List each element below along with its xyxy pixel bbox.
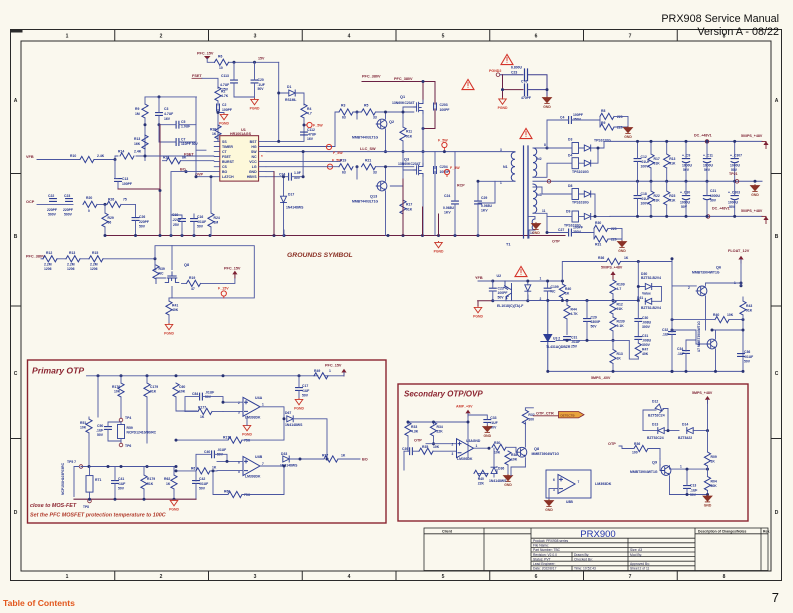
svg-text:SS: SS: [222, 140, 227, 144]
resistor R34: [430, 422, 436, 436]
svg-text:2: 2: [452, 442, 454, 446]
svg-text:C34: C34: [677, 347, 683, 351]
svg-text:D13: D13: [652, 422, 658, 426]
svg-text:RT1: RT1: [95, 478, 102, 482]
resistor R24: [208, 213, 214, 227]
resistor R40C: [715, 317, 729, 323]
transistor U7: [706, 339, 717, 349]
svg-text:1.0F: 1.0F: [294, 171, 301, 175]
svg-text:1K: 1K: [212, 132, 217, 136]
capacitor C31B: [635, 337, 642, 340]
ground GND: [532, 223, 541, 235]
svg-text:LM393DK: LM393DK: [245, 475, 261, 479]
transformer T1 primary N1: [511, 152, 515, 181]
svg-text:C109: C109: [551, 285, 559, 289]
svg-text:10: 10: [219, 66, 223, 70]
svg-text:1: 1: [66, 34, 69, 40]
svg-text:R176: R176: [112, 385, 120, 389]
svg-text:EL1018(C)(TA)-F: EL1018(C)(TA)-F: [497, 304, 523, 308]
svg-text:R21: R21: [365, 158, 371, 162]
svg-text:R239: R239: [617, 320, 625, 324]
capacitor C41: [112, 481, 119, 484]
capacitor C2: [217, 104, 220, 111]
ground GND: [483, 426, 492, 438]
svg-text:50V: 50V: [591, 325, 598, 329]
svg-text:R13: R13: [134, 137, 140, 141]
svg-text:D17: D17: [288, 192, 294, 196]
svg-text:.01UF: .01UF: [641, 197, 650, 201]
svg-text:4: 4: [348, 34, 351, 40]
svg-text:Q13: Q13: [370, 195, 377, 199]
resistor R04: [704, 477, 710, 491]
resistor R17: [400, 200, 406, 214]
svg-text:91K: 91K: [669, 162, 676, 166]
svg-text:13N60KC234T: 13N60KC234T: [398, 162, 422, 166]
diode D3: [572, 143, 579, 154]
junction dots mid rail: [636, 180, 639, 183]
capacitor C109: [544, 288, 551, 291]
svg-text:80K: 80K: [711, 484, 718, 488]
svg-text:8: 8: [723, 574, 726, 580]
wire +48V top rail: [610, 140, 762, 142]
svg-text:C23: C23: [511, 71, 517, 75]
svg-text:*: *: [261, 154, 263, 159]
svg-text:6.800U: 6.800U: [511, 66, 522, 70]
svg-text:F_5W: F_5W: [333, 151, 343, 155]
box Primary OTP: [28, 360, 387, 523]
svg-text:4.3K: 4.3K: [411, 430, 419, 434]
svg-text:100PF: 100PF: [222, 108, 232, 112]
svg-text:7: 7: [262, 462, 264, 466]
svg-text:R12: R12: [617, 303, 623, 307]
svg-text:R49: R49: [314, 369, 320, 373]
svg-text:U2: U2: [497, 274, 502, 278]
wire D36 R40: [478, 466, 497, 473]
capacitor C27: [569, 229, 572, 236]
wire VFB: [37, 156, 214, 160]
wire maroon: [118, 188, 160, 190]
svg-text:LLC_SW: LLC_SW: [360, 147, 376, 151]
transistor Q6: [696, 286, 707, 296]
svg-text:LM393DK: LM393DK: [595, 482, 612, 486]
wire top rail left: [145, 96, 197, 98]
svg-text:R4: R4: [307, 107, 311, 111]
resistor R5: [362, 109, 376, 115]
svg-text:C30: C30: [642, 316, 648, 320]
svg-text:1000U: 1000U: [730, 164, 741, 168]
resistor R3: [339, 109, 353, 115]
svg-text:C13: C13: [122, 177, 128, 181]
svg-text:+_C30: +_C30: [680, 190, 690, 194]
svg-text:91K: 91K: [150, 390, 157, 394]
svg-text:BO: BO: [362, 457, 368, 461]
svg-text:R24: R24: [214, 216, 220, 220]
svg-text:DETECTB: DETECTB: [561, 413, 575, 417]
wire HG route: [266, 112, 339, 147]
resistor R29: [102, 213, 108, 227]
svg-text:NCPD12410/80/RC: NCPD12410/80/RC: [127, 431, 157, 435]
svg-text:C31: C31: [642, 334, 648, 338]
svg-text:2: 2: [160, 34, 163, 40]
svg-text:16K: 16K: [134, 142, 141, 146]
capacitor C113: [231, 80, 238, 83]
ground PGND: [498, 98, 508, 110]
svg-text:Time: 10:52:43: Time: 10:52:43: [574, 567, 596, 571]
svg-text:PFC_15V: PFC_15V: [325, 363, 342, 367]
resistor R62: [171, 475, 177, 489]
capacitor C9: [682, 159, 689, 163]
svg-text:R16: R16: [163, 156, 169, 160]
diode D4: [572, 158, 579, 169]
svg-text:R35: R35: [422, 445, 428, 449]
svg-text:N1: N1: [503, 165, 508, 169]
wire N2 top to D3: [533, 147, 572, 149]
svg-text:D9: D9: [566, 210, 570, 214]
svg-text:0.068U: 0.068U: [443, 206, 454, 210]
resistor R13C: [664, 154, 670, 168]
resistor R41: [166, 301, 172, 315]
svg-text:1K: 1K: [624, 256, 629, 260]
svg-text:.01UF: .01UF: [641, 160, 650, 164]
wire bottom maroon rail: [74, 498, 196, 500]
capacitor C42: [193, 481, 200, 484]
svg-text:91K: 91K: [746, 309, 753, 313]
capacitor C204: [434, 167, 437, 174]
svg-text:10K: 10K: [114, 390, 121, 394]
svg-text:C33: C33: [490, 416, 496, 420]
svg-text:DC_+48V1: DC_+48V1: [712, 206, 730, 210]
wire OCP: [37, 204, 136, 217]
ground PGND: [242, 424, 252, 436]
title block table: [424, 528, 768, 571]
svg-text:100PF: 100PF: [573, 113, 583, 117]
svg-text:D: D: [14, 510, 18, 516]
svg-text:R04: R04: [711, 480, 717, 484]
svg-text:D14: D14: [682, 422, 688, 426]
svg-text:50/IPS_+48V: 50/IPS_+48V: [741, 134, 763, 138]
svg-text:Size: A3: Size: A3: [630, 548, 642, 552]
resistor R40B: [559, 284, 565, 298]
svg-text:HG: HG: [251, 145, 257, 149]
svg-text:Sheet 2 of 11: Sheet 2 of 11: [630, 567, 650, 571]
svg-text:C16: C16: [197, 215, 203, 219]
svg-text:2: 2: [160, 574, 163, 580]
svg-text:91K: 91K: [406, 207, 413, 211]
wire HBVS: [266, 152, 303, 236]
svg-text:5MPS_-60V: 5MPS_-60V: [591, 376, 611, 380]
svg-text:1000U: 1000U: [728, 201, 739, 205]
node F_5W: [326, 144, 331, 149]
svg-text:R22: R22: [654, 194, 660, 198]
svg-text:BURST: BURST: [222, 160, 235, 164]
capacitor C17: [296, 388, 303, 391]
svg-text:D36: D36: [498, 466, 504, 470]
capacitor C23: [66, 199, 73, 202]
svg-text:TP5 7: TP5 7: [67, 460, 76, 464]
svg-text:C204: C204: [440, 165, 448, 169]
svg-text:25V: 25V: [173, 223, 180, 227]
svg-text:3: 3: [254, 574, 257, 580]
svg-text:91K: 91K: [669, 199, 676, 203]
svg-text:R19: R19: [189, 276, 195, 280]
capacitor C34B: [683, 351, 690, 354]
node F_5W: [444, 169, 449, 174]
ground GND: [511, 467, 525, 476]
svg-text:2.2M: 2.2M: [90, 263, 98, 267]
svg-text:Q3: Q3: [404, 158, 409, 162]
svg-text:R20: R20: [86, 196, 92, 200]
svg-text:F_15V: F_15V: [218, 286, 229, 290]
transformer secondary N3: [533, 184, 537, 213]
svg-text:U4A: U4A: [255, 396, 263, 400]
svg-text:91K: 91K: [654, 162, 661, 166]
svg-text:C21: C21: [710, 189, 716, 193]
svg-text:1.0UF: 1.0UF: [181, 125, 190, 129]
svg-text:MMBT4403LT1G: MMBT4403LT1G: [352, 199, 378, 203]
svg-text:100: 100: [632, 450, 638, 454]
svg-text:R9: R9: [135, 107, 139, 111]
svg-text:.008U: .008U: [642, 339, 652, 343]
svg-text:51K: 51K: [147, 482, 154, 486]
svg-text:R30: R30: [595, 221, 601, 225]
svg-text:HBVS: HBVS: [247, 175, 257, 179]
svg-text:3: 3: [254, 34, 257, 40]
pin stubs right: [259, 141, 267, 176]
svg-text:R40: R40: [478, 477, 484, 481]
wire loop around Q8: [155, 246, 254, 298]
resistor R176: [118, 383, 124, 397]
svg-text:300V: 300V: [642, 325, 651, 329]
resistor R36B: [634, 445, 648, 451]
svg-text:R6: R6: [218, 55, 222, 59]
svg-text:R39: R39: [159, 267, 165, 271]
svg-text:91K: 91K: [617, 307, 624, 311]
svg-text:Approved By:: Approved By:: [630, 562, 650, 566]
svg-text:D12: D12: [652, 399, 658, 403]
capacitor C22: [50, 199, 57, 202]
svg-text:50V: 50V: [744, 359, 751, 363]
junction dots top rail: [636, 140, 639, 143]
svg-text:LM393DK: LM393DK: [457, 457, 473, 461]
svg-text:5: 5: [442, 34, 445, 40]
svg-text:C17: C17: [302, 384, 308, 388]
svg-text:MMBT3904WT1G: MMBT3904WT1G: [630, 470, 658, 474]
svg-text:1K: 1K: [341, 453, 346, 457]
svg-text:R178: R178: [223, 435, 231, 439]
resistor R16: [167, 158, 181, 164]
svg-text:5: 5: [442, 574, 445, 580]
resistor R109: [610, 280, 616, 294]
resistor R09: [704, 452, 710, 466]
diode D17: [281, 196, 287, 202]
svg-text:33: 33: [373, 170, 377, 174]
svg-text:R61: R61: [191, 466, 197, 470]
diode D33: [283, 456, 289, 462]
svg-text:R36: R36: [598, 256, 604, 260]
node F_5W: [442, 142, 447, 147]
svg-text:MMBT4403LT1G: MMBT4403LT1G: [352, 136, 378, 140]
svg-text:1: 1: [476, 444, 478, 448]
svg-text:50V: 50V: [681, 205, 688, 209]
svg-text:4.7K: 4.7K: [571, 312, 579, 316]
wire R36 to Q6: [562, 262, 672, 281]
svg-text:R10: R10: [70, 154, 76, 158]
svg-text:GROUNDS SYMBOL: GROUNDS SYMBOL: [287, 252, 353, 259]
svg-text:R34: R34: [437, 425, 443, 429]
resistor R49: [314, 373, 328, 379]
svg-text:OTP_CTR: OTP_CTR: [536, 411, 554, 415]
svg-text:D30: D30: [641, 272, 647, 276]
resistor R13D: [610, 350, 616, 364]
resistor R51: [86, 419, 92, 433]
transformer aux winding: [532, 219, 535, 230]
svg-text:R17: R17: [406, 203, 412, 207]
svg-text:TPS1010G: TPS1010G: [572, 201, 589, 205]
svg-text:100PF: 100PF: [122, 182, 132, 186]
svg-text:1N4148WS: 1N4148WS: [286, 205, 304, 209]
svg-text:50V: 50V: [498, 296, 505, 300]
svg-text:C76: C76: [521, 80, 527, 84]
resistor R9B: [600, 124, 614, 130]
svg-text:R8: R8: [601, 109, 605, 113]
svg-text:R31: R31: [595, 243, 601, 247]
warning triangle: [515, 266, 527, 276]
svg-text:16V: 16V: [164, 117, 171, 121]
svg-text:Q8: Q8: [184, 263, 189, 267]
svg-text:R5: R5: [364, 104, 368, 108]
svg-text:MMBT3904WT1G: MMBT3904WT1G: [692, 270, 720, 274]
svg-text:TP6: TP6: [125, 444, 131, 448]
capacitor C13B: [684, 486, 691, 489]
svg-text:C32: C32: [662, 328, 668, 332]
U3 TL431: [541, 301, 555, 372]
capacitor C39: [410, 448, 413, 455]
svg-text:C26: C26: [139, 215, 145, 219]
svg-text:C5: C5: [181, 120, 185, 124]
node F_5W: [307, 122, 312, 127]
svg-text:Status: PVT: Status: PVT: [533, 557, 551, 561]
svg-text:R40: R40: [713, 313, 719, 317]
svg-text:91K: 91K: [406, 134, 413, 138]
svg-text:100PF: 100PF: [573, 225, 583, 229]
svg-text:96: 96: [108, 221, 112, 225]
svg-text:4.7: 4.7: [617, 287, 622, 291]
svg-text:BZT52-B2V4: BZT52-B2V4: [641, 306, 661, 310]
svg-text:TP4: TP4: [125, 416, 131, 420]
svg-text:R11: R11: [406, 130, 412, 134]
diode D22: [525, 285, 531, 291]
wire primary: [478, 152, 515, 203]
capacitor C203: [434, 103, 437, 110]
svg-text:1: 1: [540, 277, 542, 281]
svg-text:R60: R60: [224, 489, 230, 493]
svg-text:2.4K: 2.4K: [134, 150, 142, 154]
transformer core: [524, 146, 529, 238]
svg-text:50V: 50V: [139, 225, 146, 229]
svg-text:F_5W: F_5W: [438, 138, 448, 142]
wire: [500, 75, 547, 97]
wire comp rail: [556, 340, 638, 359]
capacitor C26: [132, 218, 139, 221]
wire BO: [171, 172, 214, 215]
svg-text:1N4148WS: 1N4148WS: [489, 479, 507, 483]
svg-text:0: 0: [88, 209, 90, 213]
svg-text:R12: R12: [46, 251, 52, 255]
svg-text:50V: 50V: [199, 486, 206, 490]
capacitor C18: [634, 196, 641, 199]
ground PGND: [473, 306, 483, 318]
svg-text:100PF: 100PF: [498, 291, 508, 295]
svg-text:FSET: FSET: [192, 74, 202, 78]
svg-text:220PF: 220PF: [139, 220, 149, 224]
svg-text:Part Number: TBC: Part Number: TBC: [533, 548, 561, 552]
capacitor C307: [731, 159, 738, 163]
svg-text:10K: 10K: [511, 458, 518, 462]
ground GND: [504, 475, 513, 487]
ground PGND: [164, 323, 174, 335]
resistor R47: [635, 343, 641, 357]
svg-text:4.7: 4.7: [307, 112, 312, 116]
wire ground bus maroon: [105, 235, 565, 237]
svg-text:C203: C203: [440, 103, 448, 107]
svg-text:.01UF: .01UF: [205, 390, 214, 394]
svg-text:Description of Changes/Notes: Description of Changes/Notes: [698, 530, 747, 534]
capacitor C29: [475, 201, 482, 204]
svg-text:C12: C12: [641, 155, 647, 159]
diode D12: [655, 404, 664, 413]
svg-text:+_C303: +_C303: [728, 190, 740, 194]
svg-text:Revision: V2.0.0: Revision: V2.0.0: [533, 553, 557, 557]
op-amp U4B: [243, 457, 260, 476]
svg-text:Product: PRX908 series: Product: PRX908 series: [533, 539, 569, 543]
svg-text:R23: R23: [669, 194, 675, 198]
wire Q6 collector top: [740, 283, 742, 286]
svg-text:F_5W: F_5W: [313, 124, 323, 128]
resistor R38: [505, 451, 511, 465]
capacitor C23B: [525, 69, 528, 81]
ground GND: [543, 97, 552, 109]
svg-text:R51: R51: [80, 421, 86, 425]
svg-text:C2: C2: [222, 103, 226, 107]
svg-text:50V: 50V: [302, 393, 309, 397]
svg-text:PRX900: PRX900: [580, 529, 615, 540]
ground PGND: [250, 98, 260, 110]
svg-text:40K: 40K: [642, 352, 649, 356]
svg-text:3: 3: [452, 452, 454, 456]
svg-text:PRX908 Service Manual: PRX908 Service Manual: [661, 13, 779, 25]
svg-text:C18: C18: [641, 192, 647, 196]
svg-text:5MPS_+48V: 5MPS_+48V: [692, 391, 713, 395]
svg-text:.1UF: .1UF: [96, 429, 103, 433]
ground GND: [751, 185, 760, 197]
transistor Q2: [376, 119, 387, 129]
svg-text:MMBT3904WT1G: MMBT3904WT1G: [532, 452, 560, 456]
wire bottom rail: [610, 215, 762, 217]
svg-text:OTP: OTP: [552, 240, 560, 244]
svg-text:R29: R29: [108, 216, 114, 220]
svg-text:U8B: U8B: [566, 500, 573, 504]
svg-text:VCC: VCC: [249, 160, 257, 164]
svg-text:Lead Engineer:: Lead Engineer:: [533, 562, 555, 566]
wire mid rail: [533, 180, 762, 182]
svg-text:Q1: Q1: [400, 95, 405, 99]
svg-text:100: 100: [528, 418, 534, 422]
diode D13: [658, 428, 664, 434]
svg-text:.47UF: .47UF: [307, 133, 316, 137]
wire LLC_SW bus: [266, 151, 515, 153]
svg-text:.1UF: .1UF: [677, 352, 684, 356]
capacitor C30: [682, 196, 689, 200]
